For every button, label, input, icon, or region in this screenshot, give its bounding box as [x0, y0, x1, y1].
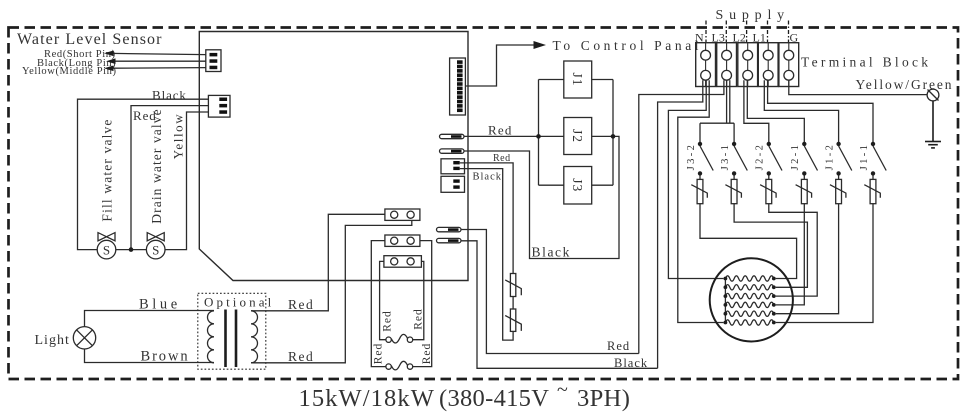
terminal block cells — [696, 43, 799, 87]
svg-text:Terminal Block: Terminal Block — [801, 55, 931, 70]
drain water valve solenoid — [146, 233, 165, 259]
svg-text:Drain water valve: Drain water valve — [149, 108, 164, 223]
wire red secondary bottom to block J-A — [251, 220, 412, 362]
wire brown lamp bottom — [85, 349, 215, 363]
thermal fuse F2 — [386, 361, 413, 370]
svg-text:J3: J3 — [570, 178, 585, 192]
wire yellow: connector to drain valve — [165, 112, 208, 250]
sensor arrow wire black — [106, 58, 206, 64]
svg-text:Red: Red — [421, 343, 433, 365]
wire black supply line — [461, 241, 658, 368]
svg-text:J2: J2 — [570, 129, 585, 143]
stub connector 1 (red) — [440, 134, 465, 138]
contact J2-2 — [755, 142, 782, 176]
svg-text:Brown: Brown — [141, 349, 190, 365]
svg-text:3PH): 3PH) — [577, 385, 630, 412]
wire red: connector to valve junction — [131, 106, 208, 250]
svg-text:J1-1: J1-1 — [859, 143, 870, 171]
relay J2 — [564, 118, 613, 155]
relay J3 — [539, 167, 614, 205]
terminal screws — [701, 50, 794, 80]
svg-text:Red: Red — [288, 297, 314, 312]
svg-text:Red: Red — [288, 349, 314, 364]
inner loop block3 to thermal fuse F1 — [380, 261, 386, 339]
indicator light lamp — [73, 327, 95, 349]
relay J1 — [539, 61, 614, 98]
wire F3-1 to heater row2 — [734, 204, 807, 288]
earth ground symbol — [925, 101, 941, 148]
fuse link F3-1 — [725, 176, 741, 204]
sensor arrow wire red — [104, 51, 206, 57]
svg-text:(380-415V: (380-415V — [439, 385, 549, 412]
J3 contacts bus — [700, 122, 734, 124]
stub connector 4 (black supply) — [437, 238, 462, 242]
svg-text:Fill water valve: Fill water valve — [100, 118, 115, 221]
contact J2-1 — [790, 142, 817, 176]
wire black loop to J relays — [464, 136, 619, 258]
wire black from thermistors — [460, 169, 513, 341]
wire L3-b to J3 bus — [726, 80, 728, 123]
svg-text:Black: Black — [532, 245, 572, 260]
svg-text:Black: Black — [473, 172, 503, 183]
sensor connector B (2pin) — [441, 176, 465, 192]
wire to control panel arrow — [465, 45, 534, 86]
connector block 1 — [385, 209, 420, 220]
wire L1-a to J1-2 contact — [764, 80, 838, 142]
fuse link F1-2 — [830, 176, 846, 204]
heater coil row5 — [724, 311, 776, 316]
heater coil row4 — [724, 302, 776, 307]
outer loop block2 to thermal fuse F2 — [371, 241, 386, 367]
wire N-a to black supply line — [658, 80, 703, 368]
wire L1-b to J1-1 contact — [768, 80, 873, 142]
fuse link F3-2 — [691, 176, 707, 204]
svg-text:Red: Red — [373, 343, 385, 365]
svg-text:Yellow(Middle Pin): Yellow(Middle Pin) — [22, 66, 117, 77]
svg-text:Black: Black — [152, 88, 187, 103]
wire L3-c to J3 bus — [729, 80, 731, 123]
wire F1-1 to heater row6 — [776, 204, 873, 323]
svg-text:J1-2: J1-2 — [824, 143, 835, 171]
stub connector 3 (red supply) — [437, 227, 462, 231]
svg-text:J3-2: J3-2 — [686, 143, 697, 171]
wire F3-2 to heater row1 — [700, 204, 797, 279]
svg-text:Red: Red — [488, 123, 513, 138]
svg-text:Blue: Blue — [139, 297, 181, 313]
svg-text:S: S — [152, 242, 159, 257]
svg-text:Black: Black — [614, 356, 648, 370]
wire L2-b to J2-1 contact — [747, 80, 804, 142]
heater left bus — [724, 279, 726, 323]
svg-text:Red: Red — [607, 339, 630, 353]
fuse link F2-2 — [760, 176, 776, 204]
fuse link F2-1 — [796, 176, 812, 204]
wire between thermistors — [512, 297, 514, 310]
wire F2-2 to heater row3 — [769, 204, 817, 296]
svg-text:J3-1: J3-1 — [720, 143, 731, 171]
J left rail — [538, 80, 540, 186]
wire red to thermistors — [460, 163, 513, 274]
transformer core — [224, 310, 227, 368]
svg-text:Optional: Optional — [204, 295, 274, 310]
ground screw symbol — [927, 89, 939, 101]
contact J1-2 — [824, 142, 851, 176]
fill water valve solenoid — [97, 233, 116, 259]
control PCB outline — [199, 32, 468, 281]
svg-text:~: ~ — [557, 379, 568, 401]
J right rail — [612, 80, 614, 186]
connector block 2 — [385, 235, 420, 246]
transformer optional dotted box — [198, 293, 266, 369]
contact J3-1 — [720, 142, 747, 176]
wire F1-2 to heater row5 — [776, 204, 839, 314]
thermistor RT1 — [505, 274, 521, 297]
svg-text:S: S — [103, 242, 110, 257]
heater coil row6 — [724, 320, 776, 325]
wire between valves — [116, 249, 147, 251]
wire L2-a to J2-2 contact — [744, 80, 769, 142]
junction dot valves — [129, 247, 134, 252]
water level sensor connector on PCB — [206, 50, 221, 72]
heater coil row3 — [724, 293, 776, 298]
contact J1-1 — [859, 142, 886, 176]
junction dot right rail — [611, 134, 616, 139]
sensor arrow wire yellow — [104, 66, 206, 72]
wire black: connector to fill valve — [78, 99, 209, 249]
wire red to J relays — [464, 135, 564, 137]
wire N-c to heater bottom-left — [678, 80, 724, 322]
svg-text:Yellow: Yellow — [170, 113, 185, 160]
svg-text:Red: Red — [381, 310, 393, 332]
svg-text:J2-2: J2-2 — [755, 143, 766, 171]
contact J3-2 — [686, 142, 713, 176]
wire red supply line — [461, 230, 639, 354]
sensor connector A (2pin) — [441, 159, 465, 174]
terminal cell center conductors — [706, 43, 789, 87]
svg-text:Water Level Sensor: Water Level Sensor — [17, 31, 163, 48]
svg-text:Red: Red — [412, 308, 424, 330]
heater coil row1 — [724, 276, 776, 281]
svg-text:To Control Panal: To Control Panal — [553, 38, 703, 53]
connector block 3 — [384, 256, 422, 268]
valve connector on PCB — [208, 95, 230, 117]
supply entry dashed leads — [706, 21, 789, 43]
wire F2-1 to heater row4 — [776, 204, 805, 305]
wire L3-a to red supply line — [639, 80, 724, 353]
heater element body — [710, 258, 793, 341]
heater coil row2 — [724, 285, 776, 290]
transformer T1 primary coil — [208, 311, 215, 363]
wire blue lamp top — [85, 311, 215, 327]
svg-text:Yellow/Green: Yellow/Green — [856, 77, 954, 92]
svg-text:J2-1: J2-1 — [790, 143, 801, 171]
tall ribbon connector on PCB right — [450, 58, 466, 115]
thermal fuse F1 — [386, 334, 413, 343]
svg-text:15kW/18kW: 15kW/18kW — [299, 385, 435, 412]
wire red secondary top to block J-A — [251, 214, 385, 310]
fuse link F1-1 — [864, 176, 880, 204]
transformer secondary coil — [251, 311, 258, 363]
svg-text:Light: Light — [35, 333, 70, 348]
wire G to ground screw — [789, 80, 927, 94]
junction dot left rail — [536, 134, 541, 139]
stub connector 2 (black) — [440, 149, 465, 153]
wire N-b to heater top-left — [668, 80, 723, 278]
svg-text:J1: J1 — [570, 72, 585, 86]
thermistor RT2 — [505, 309, 521, 331]
